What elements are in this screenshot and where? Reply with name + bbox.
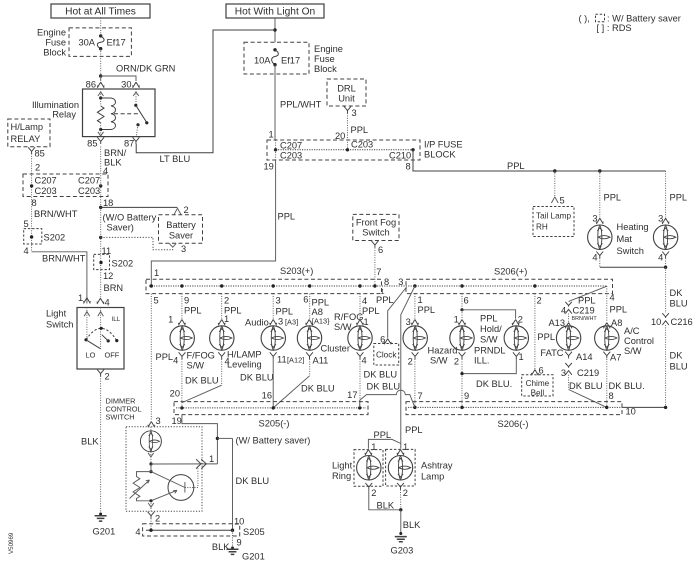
svg-text:C203: C203 bbox=[78, 186, 100, 196]
bus wire bbox=[149, 285, 607, 287]
main PPL wire to right side bbox=[413, 150, 666, 171]
branch dimmer feed: pin 5 bbox=[150, 294, 152, 421]
svg-text:BRN/WHT: BRN/WHT bbox=[34, 209, 78, 219]
svg-text:LT BLU: LT BLU bbox=[160, 154, 191, 164]
svg-text:8: 8 bbox=[406, 161, 411, 171]
svg-text:Lamp: Lamp bbox=[421, 471, 444, 481]
svg-text:G201: G201 bbox=[93, 526, 116, 536]
splice S205 bottom box bbox=[143, 524, 240, 536]
wire to pin 1 with arrows bbox=[151, 463, 217, 465]
svg-text:Block: Block bbox=[43, 48, 66, 58]
svg-text:S205: S205 bbox=[243, 527, 265, 537]
svg-text:Saver: Saver bbox=[169, 230, 193, 240]
engine fuse block 2 box bbox=[244, 42, 309, 74]
svg-text:OFF: OFF bbox=[105, 351, 120, 360]
svg-text:10: 10 bbox=[626, 406, 636, 416]
svg-text:86: 86 bbox=[86, 79, 96, 89]
svg-text:7: 7 bbox=[376, 267, 381, 277]
svg-text:Front Fog: Front Fog bbox=[356, 218, 396, 228]
wire S205 pin19 to dimmer pin1 bbox=[182, 415, 218, 464]
relay coil bbox=[101, 98, 116, 130]
svg-text:PPL: PPL bbox=[312, 298, 330, 308]
svg-text:1: 1 bbox=[269, 130, 274, 140]
svg-text:ILL.: ILL. bbox=[474, 356, 490, 366]
PPL wire down to S203 bus bbox=[151, 160, 275, 286]
svg-text:PPL: PPL bbox=[405, 425, 423, 435]
svg-text:7: 7 bbox=[418, 391, 423, 401]
svg-text:G201: G201 bbox=[242, 551, 265, 561]
svg-text:1: 1 bbox=[371, 442, 376, 452]
svg-text:3: 3 bbox=[592, 213, 597, 223]
svg-text:G203: G203 bbox=[391, 545, 414, 555]
front fog pin 6 bbox=[372, 241, 379, 248]
wires to ground bbox=[369, 490, 401, 510]
svg-text:DK BLU: DK BLU bbox=[301, 384, 335, 394]
svg-text:PPL: PPL bbox=[362, 306, 380, 316]
wire bbox=[100, 49, 102, 76]
wire BRN/BLK bbox=[100, 147, 102, 208]
svg-text:(W/ Battery saver): (W/ Battery saver) bbox=[236, 435, 311, 445]
svg-text:PPL: PPL bbox=[184, 305, 202, 315]
pin 87 bbox=[133, 137, 140, 144]
svg-text:PPL: PPL bbox=[418, 305, 436, 315]
svg-text:C203: C203 bbox=[280, 151, 302, 161]
svg-text:SWITCH: SWITCH bbox=[106, 413, 135, 422]
lamp H/LAMP leveling bbox=[210, 326, 234, 350]
wire elbow to light switch pin 1 bbox=[32, 252, 87, 304]
heating mat 2 wire bbox=[665, 171, 667, 217]
svg-text:6: 6 bbox=[539, 365, 544, 375]
heating mat switch lamp 1 bbox=[588, 225, 612, 249]
svg-text:BRN/: BRN/ bbox=[104, 148, 127, 158]
svg-text:Ashtray: Ashtray bbox=[421, 460, 453, 470]
lamp A/C control S/W bbox=[595, 326, 619, 350]
svg-text:A13: A13 bbox=[548, 318, 565, 328]
svg-text:BRN/WHT: BRN/WHT bbox=[572, 316, 598, 322]
svg-text:5: 5 bbox=[24, 219, 29, 229]
svg-text:1: 1 bbox=[418, 295, 423, 305]
power box Hot With Light On bbox=[226, 4, 324, 18]
lamp Audio bbox=[261, 326, 285, 350]
svg-text:4: 4 bbox=[362, 355, 367, 365]
svg-text:S206(+): S206(+) bbox=[494, 267, 527, 277]
svg-text:Engine: Engine bbox=[37, 28, 66, 38]
svg-text:Saver): Saver) bbox=[107, 222, 134, 232]
svg-text:3: 3 bbox=[278, 316, 283, 326]
bus inside I/P fuse block bbox=[276, 149, 413, 151]
svg-text:Chime: Chime bbox=[526, 379, 550, 388]
svg-text:4: 4 bbox=[24, 246, 29, 256]
svg-text:9: 9 bbox=[237, 537, 242, 547]
svg-text:85: 85 bbox=[35, 149, 45, 159]
wire to ground bbox=[232, 530, 234, 547]
svg-text:6: 6 bbox=[378, 245, 383, 255]
lamp light ring bbox=[357, 456, 381, 480]
svg-text:S202: S202 bbox=[44, 233, 66, 243]
svg-text:11: 11 bbox=[277, 355, 287, 365]
clock box bbox=[374, 344, 399, 366]
svg-text:Clock: Clock bbox=[376, 351, 397, 360]
branch Hazard S/W bbox=[414, 294, 416, 319]
wire through bbox=[275, 140, 277, 160]
svg-text:LO: LO bbox=[86, 351, 96, 360]
svg-text:( ),: ( ), bbox=[579, 14, 590, 24]
svg-text:DK BLU: DK BLU bbox=[569, 381, 603, 391]
svg-text:Illumination: Illumination bbox=[32, 100, 79, 110]
fuse Ef17 10A bbox=[273, 48, 276, 51]
svg-text:4: 4 bbox=[173, 356, 178, 366]
dimmer bottom node bbox=[149, 499, 152, 502]
relay linkage dashed bbox=[114, 113, 140, 115]
svg-text:4: 4 bbox=[610, 292, 615, 302]
H/Lamp relay box bbox=[8, 119, 50, 147]
svg-text:S/W: S/W bbox=[187, 361, 205, 371]
lamp R/FOG S/W bbox=[348, 326, 372, 350]
wire BLK to ground bbox=[100, 376, 102, 514]
svg-text:18: 18 bbox=[103, 198, 113, 208]
dimmer box bbox=[126, 427, 202, 511]
engine fuse block 1 box bbox=[69, 28, 131, 57]
svg-text:1: 1 bbox=[364, 317, 369, 327]
wire PPL/WHT bbox=[274, 65, 276, 140]
lamp Hold S/W bbox=[450, 326, 474, 350]
svg-text:5: 5 bbox=[154, 295, 159, 305]
svg-text:BLK: BLK bbox=[377, 500, 395, 510]
node heating mat 1 bbox=[598, 169, 601, 172]
svg-text:2: 2 bbox=[371, 488, 376, 498]
power box Hot at All Times bbox=[51, 4, 150, 18]
svg-text:Battery: Battery bbox=[166, 220, 196, 230]
light switch pin 2 bbox=[97, 370, 104, 377]
switch lever bbox=[86, 340, 101, 349]
svg-text:1: 1 bbox=[519, 352, 524, 362]
svg-text:1: 1 bbox=[78, 293, 83, 303]
svg-text:FATC: FATC bbox=[540, 348, 563, 358]
branch to light ring bbox=[368, 439, 400, 448]
svg-text:2: 2 bbox=[184, 205, 189, 215]
svg-text:3: 3 bbox=[398, 277, 403, 287]
svg-text:ILL: ILL bbox=[112, 316, 121, 323]
svg-text:4: 4 bbox=[103, 166, 108, 176]
ground G203 bbox=[399, 532, 402, 535]
svg-text:(W/O Battery: (W/O Battery bbox=[103, 212, 157, 222]
svg-text:85: 85 bbox=[87, 139, 97, 149]
svg-text:BRN/WHT: BRN/WHT bbox=[42, 253, 86, 263]
branch FATC bbox=[569, 286, 607, 301]
svg-text:10: 10 bbox=[651, 317, 661, 327]
branch Audio bbox=[272, 294, 274, 319]
svg-text:Heating: Heating bbox=[617, 222, 649, 232]
svg-text:PPL: PPL bbox=[374, 430, 392, 440]
svg-text:PPL/WHT: PPL/WHT bbox=[280, 100, 322, 110]
wire to battery saver pin 3 bbox=[101, 237, 173, 249]
wire PPL from DRL bbox=[347, 113, 349, 150]
svg-text:Fuse: Fuse bbox=[45, 38, 66, 48]
svg-text:F/FOG: F/FOG bbox=[187, 351, 215, 361]
splice S206(-) box bbox=[406, 402, 622, 415]
svg-text:Cluster: Cluster bbox=[321, 344, 350, 354]
svg-text:DK BLU: DK BLU bbox=[367, 382, 401, 392]
branch F/FOG S/W bbox=[181, 294, 183, 319]
wire front fog to bus bbox=[374, 248, 376, 286]
svg-text:2: 2 bbox=[155, 513, 160, 523]
svg-text:PPL: PPL bbox=[156, 352, 174, 362]
svg-text:DK BLU.: DK BLU. bbox=[609, 381, 645, 391]
svg-text:3: 3 bbox=[406, 317, 411, 327]
svg-text:19: 19 bbox=[172, 416, 182, 426]
lamp FATC bbox=[556, 326, 580, 350]
light switch box bbox=[77, 308, 124, 370]
lamp Cluster bbox=[297, 326, 321, 350]
svg-text:20: 20 bbox=[170, 388, 180, 398]
svg-text:Mat: Mat bbox=[617, 234, 633, 244]
dimmer lamp bbox=[150, 427, 152, 431]
svg-text:1: 1 bbox=[454, 314, 459, 324]
svg-text:PPL: PPL bbox=[537, 332, 555, 342]
svg-text:C207: C207 bbox=[35, 176, 57, 186]
svg-text:Light: Light bbox=[332, 460, 353, 470]
branch Cluster bbox=[309, 294, 311, 319]
svg-text:C207: C207 bbox=[78, 176, 100, 186]
node at fuse output bbox=[99, 74, 102, 77]
svg-text:4: 4 bbox=[135, 527, 140, 537]
dimmer internal node bbox=[149, 462, 152, 465]
battery saver box bbox=[159, 215, 203, 243]
svg-text:S203(+): S203(+) bbox=[280, 266, 313, 276]
heating mat switch lamp 2 bbox=[653, 225, 677, 249]
svg-text:6: 6 bbox=[464, 295, 469, 305]
svg-text:9: 9 bbox=[464, 391, 469, 401]
svg-text:Fuse: Fuse bbox=[314, 54, 335, 64]
light ring box bbox=[354, 450, 383, 487]
branch Chime Bell bbox=[534, 294, 536, 370]
svg-text:S/W: S/W bbox=[624, 346, 642, 356]
svg-text:V50969: V50969 bbox=[8, 532, 15, 554]
svg-text:I/P FUSE: I/P FUSE bbox=[424, 140, 463, 150]
branch Hold + PRNDL bbox=[461, 294, 463, 310]
svg-text:2: 2 bbox=[403, 488, 408, 498]
branch R/FOG S/W bbox=[359, 294, 361, 319]
node joined heating mats bbox=[664, 266, 667, 269]
svg-text:BLU: BLU bbox=[670, 361, 688, 371]
svg-text:[A12]: [A12] bbox=[287, 356, 304, 365]
svg-text:PRNDL: PRNDL bbox=[474, 346, 506, 356]
bus nodes bbox=[150, 284, 153, 287]
svg-text:12: 12 bbox=[103, 271, 113, 281]
svg-text:30A: 30A bbox=[78, 38, 95, 48]
relay coil branch bbox=[100, 89, 102, 106]
svg-text:Light: Light bbox=[46, 308, 67, 318]
svg-text:3: 3 bbox=[658, 213, 663, 223]
ashtray box bbox=[386, 449, 416, 486]
svg-text:RELAY: RELAY bbox=[11, 134, 41, 144]
svg-text:Hot at All Times: Hot at All Times bbox=[65, 7, 136, 18]
svg-text:BRN: BRN bbox=[104, 283, 124, 293]
svg-text:C203: C203 bbox=[35, 186, 57, 196]
svg-text:Hold/: Hold/ bbox=[480, 324, 502, 334]
svg-text:Ef17: Ef17 bbox=[107, 38, 126, 48]
wire to pin 30 bbox=[101, 76, 136, 81]
wire DK BLU down right bbox=[665, 267, 667, 313]
lamp Hazard S/W bbox=[403, 326, 427, 350]
svg-text:8: 8 bbox=[384, 277, 389, 287]
svg-text:1: 1 bbox=[403, 442, 408, 452]
svg-text:{A13}: {A13} bbox=[312, 317, 331, 326]
svg-text:DK BLU: DK BLU bbox=[364, 370, 398, 380]
svg-text:Audio: Audio bbox=[245, 318, 269, 328]
svg-text:2: 2 bbox=[518, 314, 523, 324]
svg-text:2: 2 bbox=[35, 163, 40, 173]
wire down to S202 bbox=[100, 207, 102, 297]
connector C216 bbox=[662, 313, 669, 325]
svg-text:PPL: PPL bbox=[278, 212, 296, 222]
svg-text:S/W: S/W bbox=[334, 322, 352, 332]
svg-text:A7: A7 bbox=[610, 352, 621, 362]
svg-text:1: 1 bbox=[154, 268, 159, 278]
clock feed diagonal bbox=[388, 287, 407, 338]
node bbox=[273, 28, 276, 31]
dimmer rheostat bbox=[133, 472, 151, 501]
tail lamp pin 5 bbox=[551, 197, 558, 203]
svg-text:2: 2 bbox=[537, 295, 542, 305]
svg-text:Ef17: Ef17 bbox=[281, 55, 300, 65]
svg-text:Hazard: Hazard bbox=[428, 346, 458, 356]
switch arc bbox=[86, 328, 117, 340]
chime bell box bbox=[522, 375, 553, 396]
svg-text:ORN/DK GRN: ORN/DK GRN bbox=[116, 64, 175, 74]
DRL unit box bbox=[327, 79, 366, 106]
splice S205(-) box bbox=[174, 402, 368, 415]
svg-text:PPL: PPL bbox=[578, 296, 596, 306]
svg-text:Engine: Engine bbox=[314, 44, 343, 54]
dimmer internal node 2 bbox=[149, 470, 152, 473]
svg-text:3: 3 bbox=[181, 244, 186, 254]
svg-text:A8: A8 bbox=[611, 318, 622, 328]
svg-text:6: 6 bbox=[380, 334, 385, 344]
connector C210 node bbox=[411, 148, 414, 151]
tail lamp RH box bbox=[533, 207, 574, 237]
connector C207/C203 box bbox=[23, 174, 108, 197]
svg-text:BLK: BLK bbox=[81, 436, 99, 446]
svg-text:DK: DK bbox=[670, 288, 684, 298]
svg-text:Switch: Switch bbox=[617, 246, 644, 256]
svg-text:17: 17 bbox=[347, 390, 357, 400]
svg-text:8: 8 bbox=[609, 391, 614, 401]
splice S202 bbox=[24, 229, 42, 244]
branch H/LAMP leveling bbox=[221, 294, 223, 319]
svg-text:6: 6 bbox=[303, 294, 308, 304]
svg-text:: W/ Battery saver: : W/ Battery saver bbox=[607, 14, 681, 24]
relay resistor bbox=[97, 106, 104, 123]
svg-text:Hot With Light On: Hot With Light On bbox=[235, 7, 315, 18]
splice S203(+) box bbox=[146, 279, 382, 293]
svg-text:S202: S202 bbox=[112, 258, 134, 268]
svg-text:4: 4 bbox=[105, 297, 110, 307]
dimmer pin 3 bbox=[148, 422, 156, 428]
DRL pin 3 bbox=[344, 107, 351, 114]
svg-text:C219: C219 bbox=[573, 305, 595, 315]
svg-text:Switch: Switch bbox=[46, 319, 73, 329]
svg-text:A8: A8 bbox=[312, 307, 323, 317]
svg-text:2: 2 bbox=[105, 371, 110, 381]
wire W/ battery saver bbox=[217, 437, 232, 439]
node W/O battery saver bbox=[99, 206, 102, 209]
svg-text:A14: A14 bbox=[576, 352, 593, 362]
svg-text:9: 9 bbox=[184, 295, 189, 305]
svg-text:4: 4 bbox=[592, 253, 597, 263]
svg-text:BLK: BLK bbox=[403, 520, 421, 530]
svg-text:PPL: PPL bbox=[376, 295, 394, 305]
svg-text:A11: A11 bbox=[313, 356, 329, 366]
svg-text:Bell: Bell bbox=[531, 388, 545, 397]
svg-text:1: 1 bbox=[168, 314, 173, 324]
svg-text:RH: RH bbox=[536, 222, 548, 231]
svg-text:DK BLU: DK BLU bbox=[236, 476, 270, 486]
I/P fuse block box bbox=[267, 140, 420, 160]
wire bbox=[100, 18, 102, 36]
svg-text:BLU: BLU bbox=[670, 298, 688, 308]
svg-text:BLK: BLK bbox=[212, 542, 230, 552]
svg-text:DRL: DRL bbox=[337, 84, 356, 94]
svg-text:Control: Control bbox=[624, 336, 654, 346]
internal wire pin4 ILL bbox=[100, 308, 102, 349]
illumination relay box bbox=[83, 89, 156, 137]
ground G201 bbox=[99, 513, 102, 516]
svg-text:PPL: PPL bbox=[480, 314, 498, 324]
svg-text:C210: C210 bbox=[389, 151, 411, 161]
pin 86 bbox=[97, 82, 105, 88]
wire LT BLU elbow to relay pin 87 bbox=[136, 30, 275, 153]
splice S206(+) box bbox=[406, 279, 613, 293]
svg-text:H/LAMP: H/LAMP bbox=[227, 350, 262, 360]
svg-text:4: 4 bbox=[362, 296, 367, 306]
dimmer transistor bbox=[168, 475, 194, 501]
svg-text:PPL: PPL bbox=[276, 306, 294, 316]
svg-text:19: 19 bbox=[264, 161, 274, 171]
connector C203 node bbox=[346, 148, 349, 151]
svg-text:S205(-): S205(-) bbox=[259, 418, 290, 428]
svg-text:PPL: PPL bbox=[351, 125, 369, 135]
lamp ashtray bbox=[388, 456, 412, 480]
svg-text:PPL: PPL bbox=[507, 161, 525, 171]
svg-text:S206(-): S206(-) bbox=[498, 419, 529, 429]
svg-text:Tail Lamp: Tail Lamp bbox=[536, 211, 571, 220]
svg-text:3: 3 bbox=[352, 108, 357, 118]
svg-text:DK BLU: DK BLU bbox=[240, 372, 274, 382]
svg-text:C203: C203 bbox=[351, 140, 373, 150]
svg-text:16: 16 bbox=[262, 391, 272, 401]
internal wire pin1 bbox=[86, 308, 88, 340]
PPL feed to bottom lamps bbox=[401, 286, 415, 449]
wire to battery saver pin 2 bbox=[101, 206, 178, 208]
svg-text:Relay: Relay bbox=[52, 110, 76, 120]
relay switch bbox=[135, 89, 137, 105]
wire BRN/WHT chain left bbox=[31, 154, 33, 252]
svg-text:DK: DK bbox=[670, 350, 684, 360]
svg-text:S/W: S/W bbox=[430, 356, 448, 366]
svg-text:2: 2 bbox=[224, 295, 229, 305]
H/Lamp relay pin 85 bbox=[28, 147, 35, 154]
fuse Ef17 30A bbox=[99, 34, 102, 37]
svg-text:DK BLU: DK BLU bbox=[185, 375, 219, 385]
svg-text:[A3]: [A3] bbox=[285, 317, 298, 326]
svg-text:C207: C207 bbox=[280, 141, 302, 151]
ground G201 right bbox=[231, 546, 234, 549]
svg-text:10A: 10A bbox=[254, 55, 271, 65]
svg-text:8: 8 bbox=[32, 198, 37, 208]
dimmer pin 2 bbox=[148, 512, 155, 519]
svg-text:C219: C219 bbox=[577, 368, 599, 378]
